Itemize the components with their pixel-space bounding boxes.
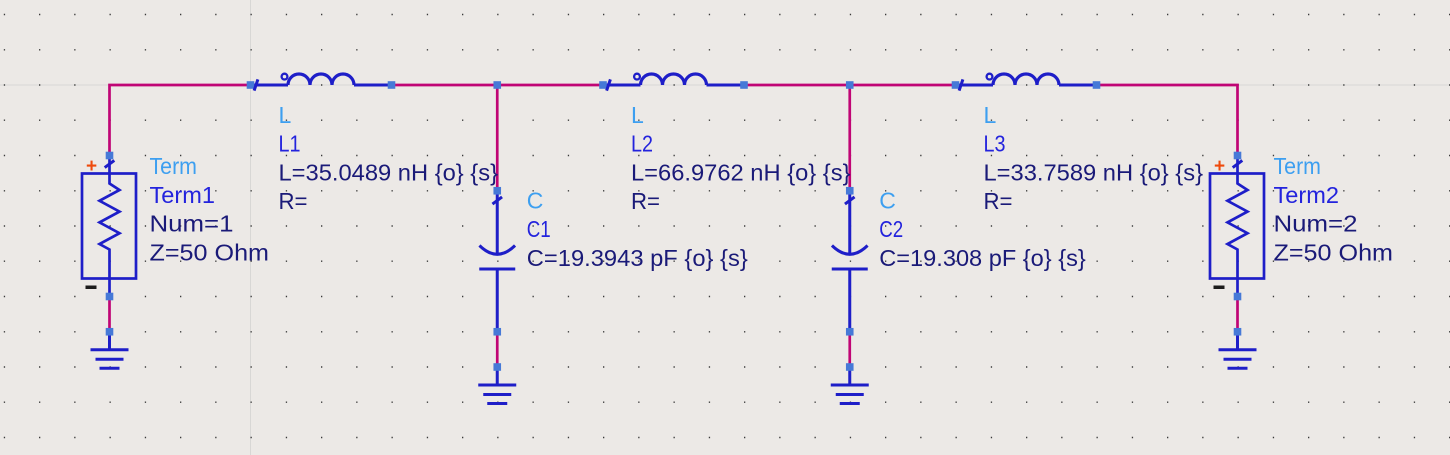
node square	[952, 81, 960, 89]
svg-text:L=33.7589 nH {o} {s}: L=33.7589 nH {o} {s}	[984, 159, 1204, 185]
wire node1 to L2	[497, 84, 603, 87]
svg-text:R=: R=	[279, 188, 308, 214]
ground Term1	[91, 332, 129, 369]
wire Term1 to L1	[110, 85, 251, 156]
svg-text:L=66.9762 nH {o} {s}: L=66.9762 nH {o} {s}	[631, 159, 851, 185]
node square	[1234, 293, 1242, 301]
wire Term1 to gnd node	[108, 297, 111, 332]
minus sign Term1	[86, 286, 97, 290]
svg-text:L: L	[279, 102, 292, 128]
pin tick	[254, 79, 258, 90]
svg-text:L1: L1	[279, 131, 301, 157]
axis origin lines	[250, 0, 252, 455]
svg-text:L2: L2	[631, 131, 653, 157]
svg-text:L: L	[631, 102, 644, 128]
node square	[1234, 152, 1242, 160]
pin tick	[492, 197, 502, 204]
node square	[740, 81, 748, 89]
node square	[388, 81, 396, 89]
terminal Term1	[82, 156, 136, 297]
node square	[1234, 328, 1242, 336]
svg-text:L=35.0489 nH {o} {s}: L=35.0489 nH {o} {s}	[279, 159, 499, 185]
node square	[1093, 81, 1101, 89]
node square	[493, 81, 501, 89]
node square	[493, 187, 501, 195]
svg-text:Num=2: Num=2	[1274, 211, 1358, 237]
pin tick	[105, 160, 115, 167]
svg-text:Term: Term	[150, 153, 198, 179]
minus sign Term2	[1214, 286, 1225, 290]
wire L1 to node1	[392, 84, 498, 87]
svg-text:Z=50 Ohm: Z=50 Ohm	[150, 239, 270, 265]
svg-text:C: C	[527, 187, 544, 213]
node square	[846, 187, 854, 195]
svg-text:L: L	[984, 102, 997, 128]
pin tick	[845, 197, 855, 204]
svg-text:R=: R=	[984, 188, 1013, 214]
ground Term2	[1219, 332, 1257, 369]
ground C2	[831, 367, 869, 404]
wire node2 to L3	[850, 84, 956, 87]
capacitor C1	[479, 192, 515, 332]
node square	[846, 81, 854, 89]
node square	[846, 363, 854, 371]
wire node1 to C1	[496, 85, 499, 191]
node square	[106, 328, 114, 336]
ground C1	[478, 367, 516, 404]
wire Term2 to gnd node	[1236, 297, 1239, 332]
node square	[599, 81, 607, 89]
svg-text:+: +	[86, 156, 97, 177]
wire C1 to gnd node	[496, 332, 499, 367]
svg-text:C1: C1	[527, 216, 551, 242]
svg-text:Num=1: Num=1	[150, 211, 234, 237]
node square	[493, 328, 501, 336]
svg-text:Z=50 Ohm: Z=50 Ohm	[1274, 239, 1394, 265]
svg-text:Term2: Term2	[1274, 182, 1340, 208]
node square	[846, 328, 854, 336]
wire L3 to Term2	[1097, 85, 1238, 156]
svg-text:C2: C2	[879, 216, 903, 242]
inductor L1	[251, 74, 392, 85]
pin tick	[1233, 160, 1243, 167]
node square	[106, 152, 114, 160]
pin tick	[607, 79, 611, 90]
svg-text:R=: R=	[631, 188, 660, 214]
svg-text:C=19.3943 pF {o} {s}: C=19.3943 pF {o} {s}	[527, 245, 748, 271]
wire C2 to gnd node	[848, 332, 851, 367]
svg-text:C: C	[879, 187, 896, 213]
wire L2 to node2	[744, 84, 850, 87]
svg-text:C=19.308 pF {o} {s}: C=19.308 pF {o} {s}	[879, 245, 1086, 271]
inductor L3	[956, 74, 1097, 85]
svg-text:+: +	[1214, 156, 1225, 177]
node square	[493, 363, 501, 371]
terminal Term2	[1210, 156, 1264, 297]
svg-text:L3: L3	[984, 131, 1006, 157]
capacitor C2	[832, 192, 868, 332]
node square	[106, 293, 114, 301]
pin tick	[959, 79, 963, 90]
node square	[247, 81, 255, 89]
inductor L2	[603, 74, 744, 85]
svg-text:Term1: Term1	[150, 182, 216, 208]
wire node2 to C2	[848, 85, 851, 191]
svg-text:Term: Term	[1274, 153, 1322, 179]
